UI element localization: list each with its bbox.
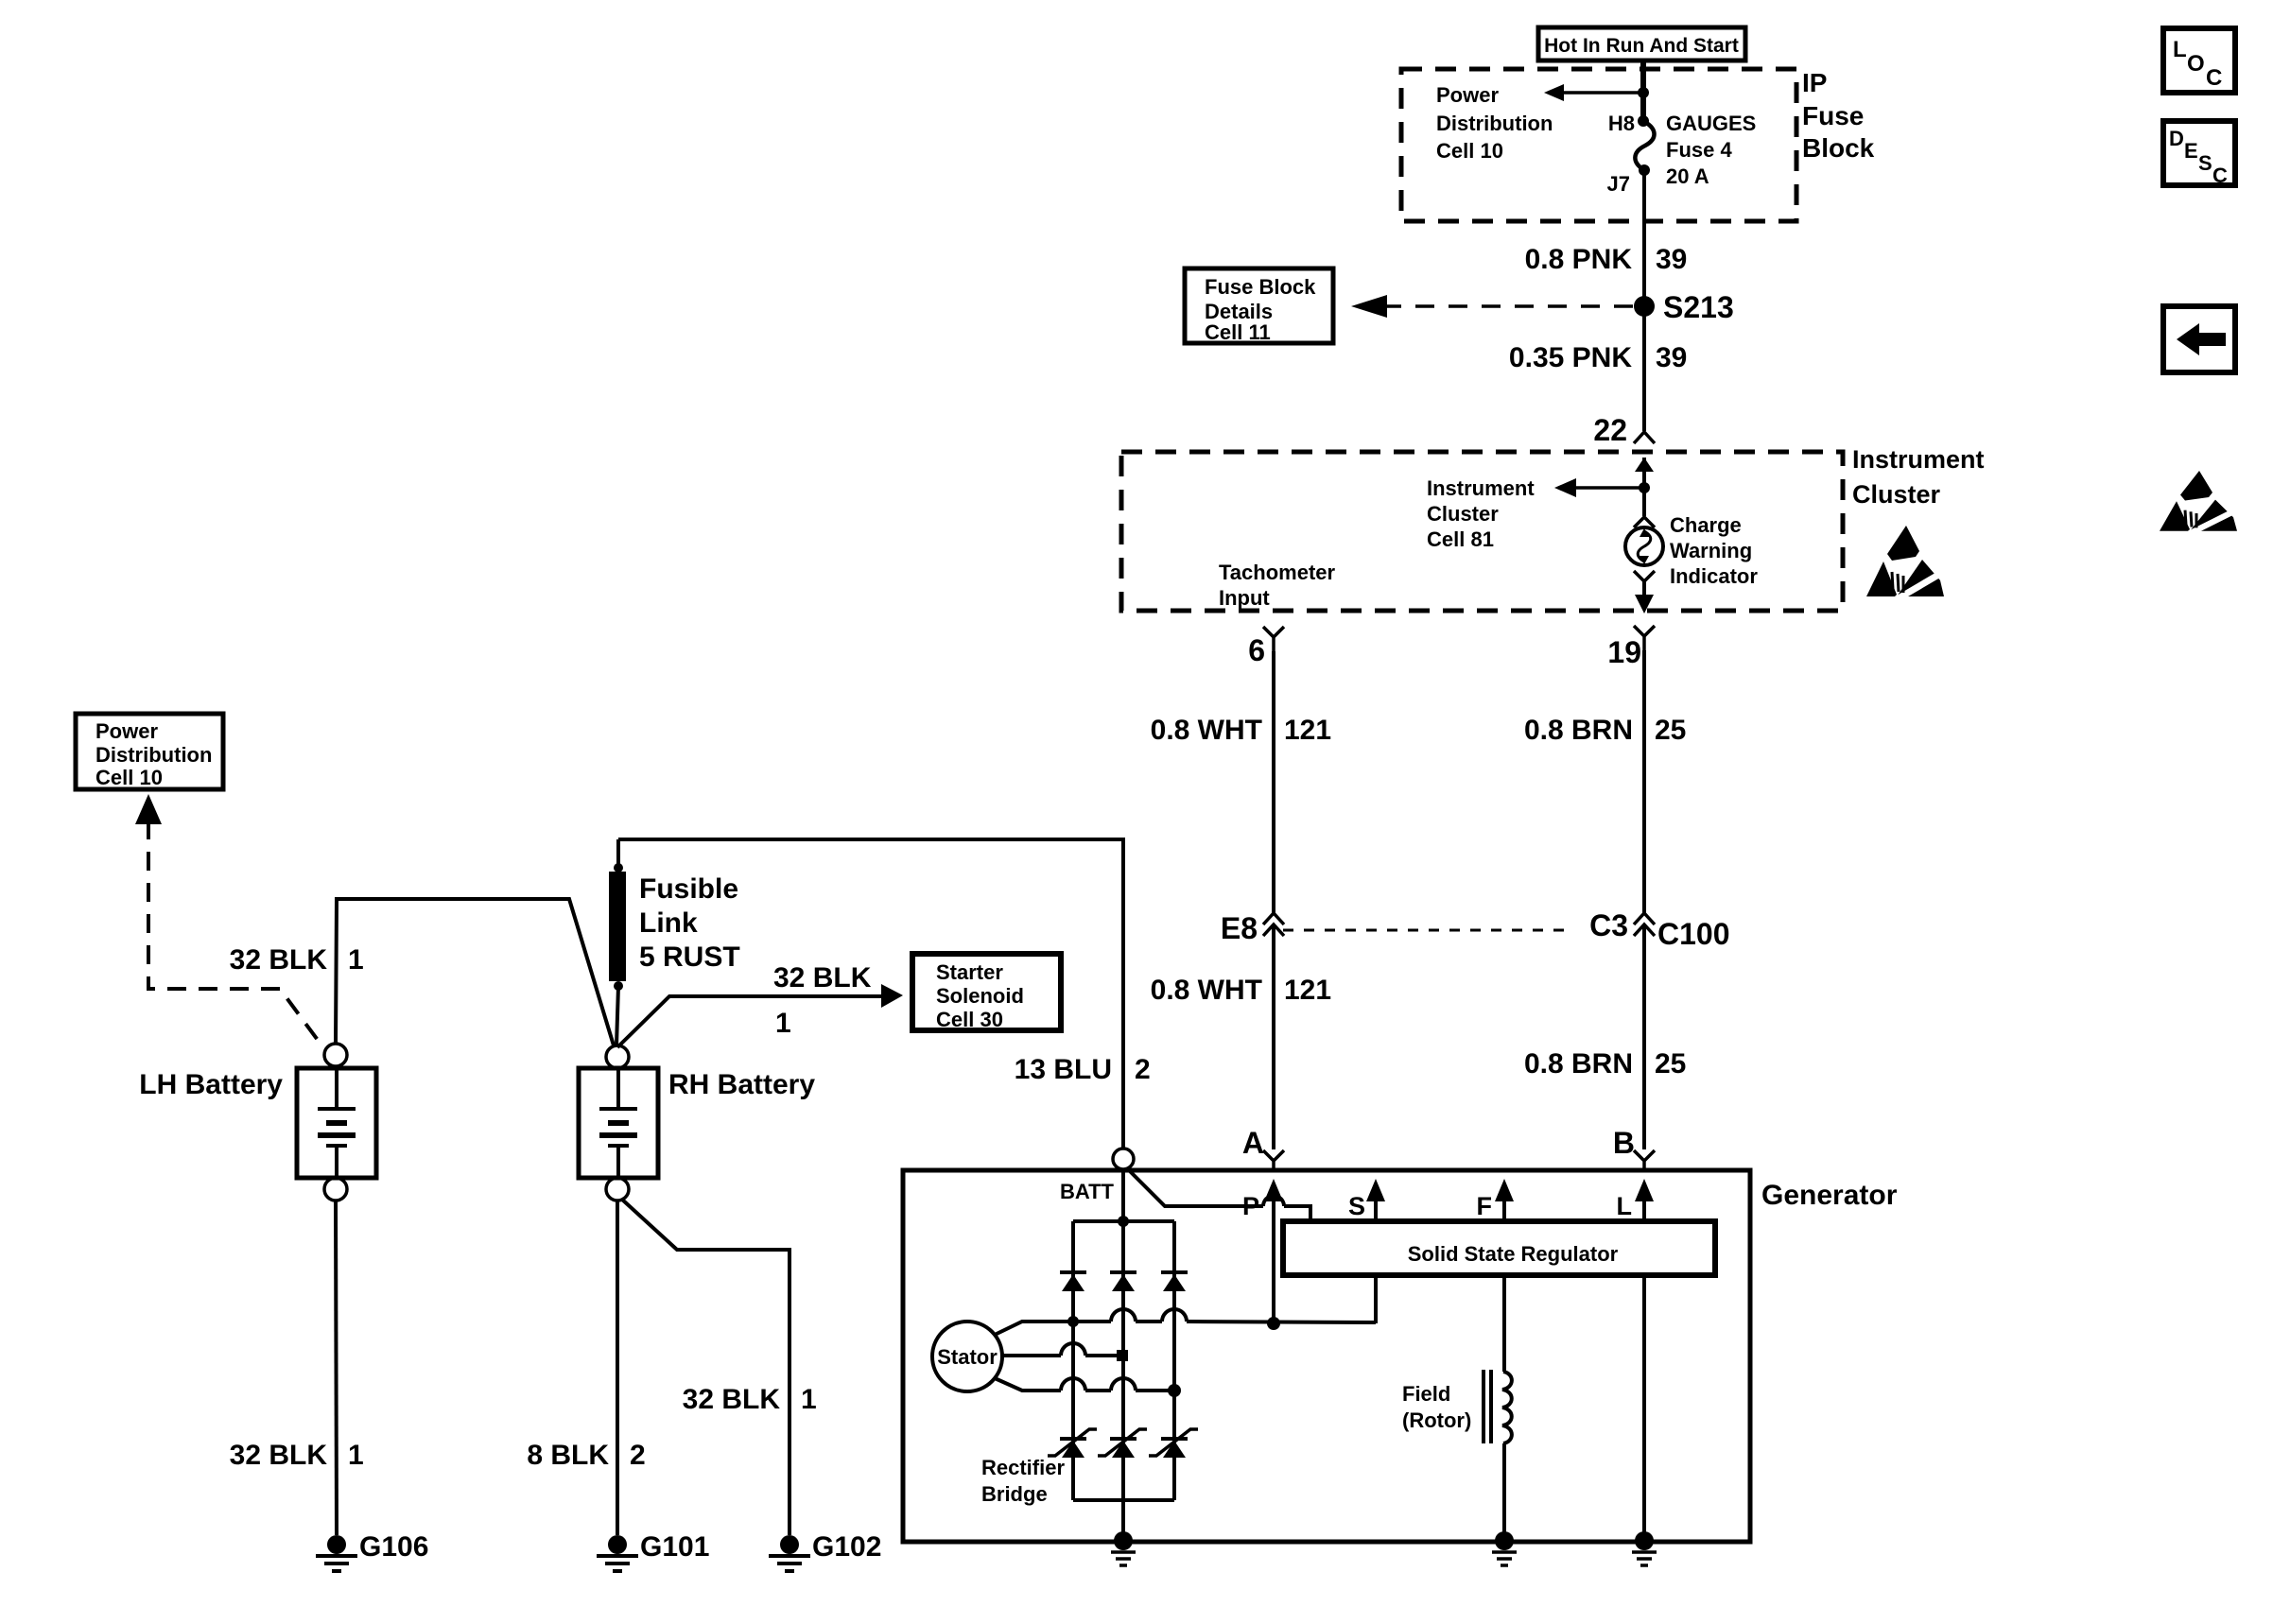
P terminal xyxy=(1264,1179,1283,1201)
svg-text:0.8 BRN: 0.8 BRN xyxy=(1524,715,1633,746)
ground G102 xyxy=(769,1531,881,1571)
svg-text:J7: J7 xyxy=(1607,172,1630,196)
svg-text:S213: S213 xyxy=(1663,290,1734,324)
svg-text:Link: Link xyxy=(639,907,698,939)
pin 22 male terminal inside cluster xyxy=(1635,458,1654,472)
splice S213 xyxy=(1634,296,1655,317)
svg-text:0.8 WHT: 0.8 WHT xyxy=(1151,715,1262,746)
svg-text:O: O xyxy=(2187,51,2205,77)
svg-text:Instrument: Instrument xyxy=(1427,476,1535,500)
svg-text:0.35 PNK: 0.35 PNK xyxy=(1509,342,1632,373)
svg-text:2: 2 xyxy=(1135,1054,1151,1085)
RH battery to G102 wire xyxy=(621,1199,789,1535)
svg-text:13 BLU: 13 BLU xyxy=(1015,1054,1112,1085)
svg-text:8 BLK: 8 BLK xyxy=(527,1440,609,1471)
stator phase bottom xyxy=(995,1378,1174,1391)
Instrument Cluster label xyxy=(1852,445,1985,509)
svg-text:Field: Field xyxy=(1402,1382,1450,1406)
Instrument Cluster dashed box xyxy=(1121,452,1843,611)
svg-text:Bridge: Bridge xyxy=(981,1482,1048,1506)
Solid State Regulator xyxy=(1283,1221,1715,1275)
svg-text:22: 22 xyxy=(1593,413,1627,447)
fusible link xyxy=(609,839,626,1045)
Power Distribution Cell 10 text xyxy=(1436,83,1553,163)
bridge legs xyxy=(1071,1221,1075,1500)
ground at field coil xyxy=(1492,1531,1517,1565)
RH Battery xyxy=(579,1045,815,1201)
Stator xyxy=(932,1322,1002,1391)
field rotor coil xyxy=(1484,1370,1512,1443)
svg-text:(Rotor): (Rotor) xyxy=(1402,1408,1471,1432)
svg-text:Cell 10: Cell 10 xyxy=(1436,139,1503,163)
svg-text:6: 6 xyxy=(1248,633,1265,667)
svg-text:0.8 WHT: 0.8 WHT xyxy=(1151,975,1262,1006)
svg-text:F: F xyxy=(1477,1192,1493,1220)
svg-text:20 A: 20 A xyxy=(1666,164,1709,188)
svg-text:C: C xyxy=(2212,164,2228,187)
svg-text:C3: C3 xyxy=(1589,908,1628,942)
wire from Hot box into fuse xyxy=(1640,60,1646,121)
svg-text:Rectifier: Rectifier xyxy=(981,1456,1065,1479)
BATT center leg down to ground xyxy=(1121,1169,1125,1535)
Fuse Block Details box xyxy=(1185,268,1333,344)
regulator to stator phase vertical xyxy=(1374,1275,1378,1323)
svg-text:Power: Power xyxy=(95,719,158,743)
svg-text:Fuse Block: Fuse Block xyxy=(1205,275,1316,299)
fuse GAUGES Fuse 4 20A xyxy=(1635,121,1654,170)
svg-text:Cluster: Cluster xyxy=(1852,480,1941,509)
svg-text:Block: Block xyxy=(1802,133,1875,163)
junction dot in cluster xyxy=(1639,482,1650,493)
svg-text:Cluster: Cluster xyxy=(1427,502,1499,526)
wire 0.8 WHT 121 lower xyxy=(1272,924,1275,1149)
svg-text:19: 19 xyxy=(1607,635,1641,669)
svg-text:A: A xyxy=(1242,1126,1264,1160)
dashed wire to power distribution xyxy=(148,821,322,1046)
svg-text:LH Battery: LH Battery xyxy=(139,1069,283,1100)
dashed arrow to Fuse Block Details xyxy=(1351,295,1634,318)
Tachometer Input text xyxy=(1219,561,1336,610)
LH battery to G106 xyxy=(336,1201,337,1535)
Hot In Run And Start box xyxy=(1538,27,1745,60)
wire to starter solenoid xyxy=(617,996,887,1047)
13 BLU 2 wire (fusible link to BATT) xyxy=(618,839,1123,1148)
DESC icon xyxy=(2163,121,2235,187)
label 0.8 PNK 39 xyxy=(1525,244,1688,275)
label 32 BLK 1 (LH top) xyxy=(230,944,364,976)
F terminal xyxy=(1495,1179,1514,1201)
ESD icon (right column) xyxy=(2160,471,2237,533)
label 0.35 PNK 39 xyxy=(1509,342,1687,373)
wire 0.8 WHT 121 upper xyxy=(1272,651,1275,913)
Starter Solenoid box xyxy=(912,954,1061,1031)
svg-text:2: 2 xyxy=(630,1440,646,1471)
F wire to ground xyxy=(1502,1443,1506,1535)
wire PNK down to S213 xyxy=(1642,170,1646,431)
svg-text:Fuse 4: Fuse 4 xyxy=(1666,138,1732,162)
svg-text:1: 1 xyxy=(348,944,364,976)
svg-text:121: 121 xyxy=(1284,715,1331,746)
svg-text:32 BLK: 32 BLK xyxy=(230,1440,328,1471)
fuse J7 terminal xyxy=(1639,164,1650,176)
Power Distribution Cell 10 box (left) xyxy=(76,714,223,789)
svg-text:Generator: Generator xyxy=(1761,1180,1898,1211)
svg-text:Distribution: Distribution xyxy=(95,743,212,767)
F wire below regulator to field coil xyxy=(1502,1275,1506,1372)
arrow to Power Distribution xyxy=(1544,84,1649,101)
svg-text:C: C xyxy=(2206,65,2222,91)
BATT feed to regulator xyxy=(1127,1168,1310,1221)
arrow to Instrument Cluster Cell 81 xyxy=(1571,486,1644,490)
Generator box xyxy=(903,1170,1750,1542)
stator phase middle xyxy=(1002,1354,1117,1357)
C100 dashed line xyxy=(1283,929,1570,932)
svg-text:1: 1 xyxy=(775,1008,791,1039)
S terminal xyxy=(1366,1179,1385,1201)
back arrow icon xyxy=(2163,306,2235,372)
wire 0.8 BRN 25 upper xyxy=(1642,650,1646,913)
svg-text:IP: IP xyxy=(1802,68,1827,97)
svg-text:25: 25 xyxy=(1655,1048,1686,1080)
svg-text:1: 1 xyxy=(801,1384,817,1415)
svg-text:Solid State Regulator: Solid State Regulator xyxy=(1408,1242,1619,1266)
rectifier bridge rails xyxy=(1073,1219,1174,1223)
svg-text:Hot In Run And Start: Hot In Run And Start xyxy=(1544,35,1739,57)
ground G101 xyxy=(597,1531,709,1571)
svg-text:Charge: Charge xyxy=(1670,513,1742,537)
svg-text:Power: Power xyxy=(1436,83,1499,107)
svg-text:39: 39 xyxy=(1656,244,1687,275)
svg-text:D: D xyxy=(2169,127,2184,150)
svg-text:Cell 10: Cell 10 xyxy=(95,766,163,789)
svg-text:Input: Input xyxy=(1219,586,1270,610)
connector C100 C3 side xyxy=(1589,908,1729,951)
svg-text:Solenoid: Solenoid xyxy=(936,984,1024,1008)
svg-text:Cell 81: Cell 81 xyxy=(1427,527,1494,551)
svg-text:1: 1 xyxy=(348,1440,364,1471)
svg-text:E8: E8 xyxy=(1221,911,1258,945)
svg-text:121: 121 xyxy=(1284,975,1331,1006)
svg-text:Cell 30: Cell 30 xyxy=(936,1008,1003,1031)
L wire below regulator to ground xyxy=(1642,1275,1646,1535)
fuse H8 terminal xyxy=(1638,115,1649,127)
svg-text:32 BLK: 32 BLK xyxy=(773,962,872,993)
svg-text:Instrument: Instrument xyxy=(1852,445,1985,474)
lower zener diodes xyxy=(1048,1429,1198,1458)
svg-text:G101: G101 xyxy=(640,1531,709,1563)
LH Battery xyxy=(139,1044,376,1201)
svg-text:Starter: Starter xyxy=(936,960,1003,984)
svg-text:0.8 BRN: 0.8 BRN xyxy=(1524,1048,1633,1080)
ESD symbol near cluster xyxy=(1866,526,1944,599)
svg-text:Distribution: Distribution xyxy=(1436,112,1553,135)
svg-text:39: 39 xyxy=(1656,342,1687,373)
IP Fuse Block dashed box xyxy=(1401,69,1796,221)
L terminal xyxy=(1635,1179,1654,1201)
svg-text:C100: C100 xyxy=(1657,917,1730,951)
svg-text:G106: G106 xyxy=(359,1531,428,1563)
svg-text:Cell 11: Cell 11 xyxy=(1205,320,1271,344)
svg-text:Tachometer: Tachometer xyxy=(1219,561,1336,584)
svg-text:Fuse: Fuse xyxy=(1802,101,1864,130)
charge warning indicator lamp xyxy=(1634,517,1655,527)
svg-text:32 BLK: 32 BLK xyxy=(230,944,328,976)
svg-text:5 RUST: 5 RUST xyxy=(639,942,740,973)
svg-text:L: L xyxy=(1617,1192,1633,1220)
svg-text:Fusible: Fusible xyxy=(639,873,738,905)
IP Fuse Block label xyxy=(1802,68,1875,163)
svg-text:H8: H8 xyxy=(1608,112,1635,135)
Rectifier Bridge text xyxy=(981,1456,1065,1506)
svg-text:RH Battery: RH Battery xyxy=(668,1069,815,1100)
svg-text:25: 25 xyxy=(1655,715,1686,746)
svg-text:B: B xyxy=(1613,1126,1635,1160)
svg-text:GAUGES: GAUGES xyxy=(1666,112,1756,135)
svg-text:S: S xyxy=(1348,1192,1365,1220)
svg-text:Indicator: Indicator xyxy=(1670,564,1758,588)
svg-text:BATT: BATT xyxy=(1060,1180,1115,1203)
svg-text:0.8 PNK: 0.8 PNK xyxy=(1525,244,1633,275)
svg-text:Stator: Stator xyxy=(937,1345,998,1369)
ground at L terminal wire xyxy=(1632,1531,1657,1565)
connector C100 E8 xyxy=(1221,911,1284,945)
wire 0.8 BRN 25 lower xyxy=(1642,924,1646,1149)
upper diodes xyxy=(1060,1272,1188,1291)
RH battery to G101 xyxy=(616,1201,619,1535)
ground G106 xyxy=(316,1531,428,1571)
svg-text:G102: G102 xyxy=(812,1531,881,1563)
LH battery top wire xyxy=(336,899,614,1045)
svg-text:Warning: Warning xyxy=(1670,539,1752,562)
stator phase top xyxy=(995,1322,1376,1335)
BATT terminal xyxy=(1113,1149,1134,1169)
svg-text:L: L xyxy=(2173,37,2187,62)
LOC icon xyxy=(2163,28,2235,93)
svg-text:P: P xyxy=(1242,1192,1259,1220)
svg-text:S: S xyxy=(2198,151,2212,175)
svg-text:32 BLK: 32 BLK xyxy=(683,1384,781,1415)
ground at rectifier bridge xyxy=(1111,1531,1136,1565)
svg-text:E: E xyxy=(2184,139,2198,163)
